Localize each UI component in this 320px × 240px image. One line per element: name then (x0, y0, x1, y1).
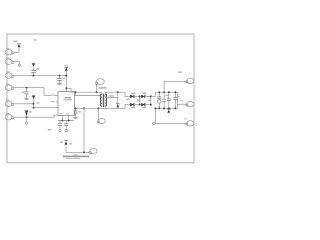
junction bus b (68, 120, 70, 122)
wire GND to TP3 (66, 151, 90, 153)
wire gnd to X8mid (177, 103, 186, 105)
supply arrow VCC (up) (64, 65, 68, 71)
test point TP3 (89, 148, 97, 153)
label smudge (74, 154, 78, 155)
ground arrow GND1 (60, 141, 72, 153)
capacitor C8 (167, 92, 171, 108)
connector X9 (186, 121, 194, 126)
wire VCC vertical to IC pin (65, 71, 67, 92)
connector X1 (5, 48, 14, 55)
pin label smudge (51, 101, 54, 102)
open stub circle below X6 (25, 117, 27, 124)
wire to X8 (155, 122, 186, 124)
wire X5 row (14, 103, 34, 105)
junction bottom/psub (75, 107, 77, 109)
IC bottom pin stubs (61, 116, 63, 121)
wire X3 row (14, 75, 66, 77)
junction C6 top (158, 91, 160, 93)
border frame (7, 34, 194, 163)
junction rail/pin1 (75, 91, 77, 93)
junction a1 (139, 95, 141, 97)
net label smudge (36, 102, 39, 103)
capacitor C3 (58, 121, 62, 132)
junction ct (117, 91, 119, 93)
junction C8 top (168, 91, 170, 93)
supply arrow (down) row6 (25, 111, 32, 117)
junction bus a (61, 120, 63, 122)
junction C6 bottom (158, 107, 160, 109)
wire output to X7 (164, 81, 186, 92)
junction C7 bottom (163, 107, 165, 109)
junction C1/X3 (33, 75, 35, 77)
wire X4 row to IC (14, 88, 58, 96)
connector X5 (5, 100, 14, 107)
net label smudge top (34, 39, 37, 40)
label smudge C3 (48, 129, 51, 130)
gnd drop to connector wire (154, 108, 156, 123)
ground bars (24, 98, 28, 99)
capacitor C5 on rail (73, 108, 77, 118)
junction TP2 (97, 107, 99, 109)
rectifier cross link a (139, 96, 141, 104)
output node to top rail (151, 92, 178, 96)
connector X4 (5, 83, 14, 90)
capacitor C9 (173, 92, 179, 108)
junction C9 bottom (174, 107, 176, 109)
secondary center tap to ground (105, 92, 119, 107)
junction TP1 (96, 91, 98, 93)
junction VCC rail branch (65, 87, 67, 89)
connector X7 (178, 72, 194, 84)
junction TP3 wire (83, 151, 85, 153)
junction b2 (150, 104, 152, 106)
junction at rail (83, 107, 85, 109)
capacitor C10 (57, 76, 65, 84)
capacitor C2 (22, 88, 29, 98)
label X8 smudge (180, 100, 183, 101)
wire X2 stub (14, 62, 20, 64)
stub rail to pin wire (75, 92, 77, 95)
below-IC ground bus (58, 120, 74, 122)
VCC rail to transformer center tap (66, 88, 101, 92)
node circle (152, 122, 154, 124)
junction C9 top (174, 91, 176, 93)
wire X6 row to IC (14, 115, 58, 117)
ground arrow GND2 (167, 107, 170, 112)
junction row5 corner (33, 107, 35, 109)
junction b1 (150, 95, 152, 97)
wire IC pin to primary (77, 95, 100, 97)
secondary jog left (125, 92, 130, 96)
test point TP2 (97, 108, 105, 123)
capacitor C7 (162, 92, 168, 108)
connector X3 (5, 71, 14, 78)
wire to IC pin 3 (34, 107, 59, 109)
IC U1 body (58, 92, 75, 116)
junction a2 (139, 104, 141, 106)
connector X8 (186, 102, 194, 107)
diode D2 (130, 103, 139, 108)
junction X4/C2 (26, 87, 28, 89)
IC left pin stub (56, 101, 58, 103)
output ground rail (155, 92, 177, 108)
primary drive rail (bottom) (77, 107, 125, 109)
capacitor C4 (64, 121, 68, 132)
supply arrow VIN (13, 41, 21, 49)
capacitor C6 (polarized) (157, 92, 161, 108)
top rail transformer to rectifier (105, 91, 125, 93)
junction C10/X3 (59, 75, 61, 77)
capacitor C1 (31, 68, 39, 75)
connector X2 (5, 57, 14, 64)
supply arrow (down) feeding C1 (32, 63, 35, 70)
title text smudge (63, 156, 89, 159)
pin label smudge 2 (51, 94, 54, 95)
transformer T1 (99, 87, 107, 108)
test point TP1 (96, 79, 105, 93)
diode D1 (130, 93, 139, 99)
junction gnd drop (154, 107, 156, 109)
diode D3 (141, 93, 151, 99)
junction C7 top (163, 91, 165, 93)
IC right pin stubs (75, 95, 78, 97)
open pin circle node (18, 64, 20, 66)
junction X6 (26, 116, 28, 118)
ground bars C10 (57, 84, 61, 85)
rectifier cross link b (150, 96, 152, 104)
connector X6 (5, 113, 14, 120)
label X9 smudge (184, 118, 187, 119)
junction X5 (33, 103, 35, 105)
diode D4 (141, 103, 151, 108)
wire down from GND rail to TP3 (83, 108, 85, 152)
junction VCC/X3 (65, 75, 67, 77)
pin name smudges (60, 113, 63, 114)
label smudge C5 (78, 111, 81, 112)
wire X1 to VCC (14, 48, 19, 52)
supply arrow (down) row5 (32, 96, 35, 108)
